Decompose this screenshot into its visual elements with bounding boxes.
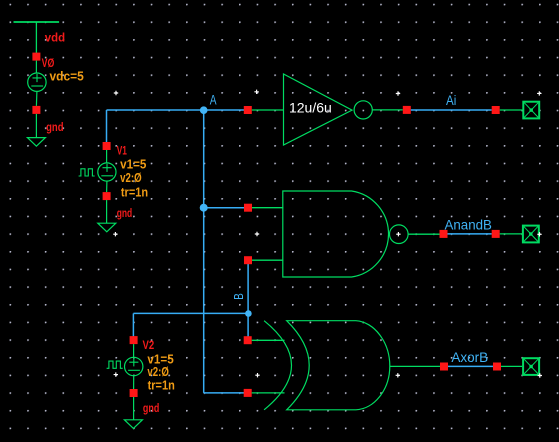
wire net A vertical trunk [203,110,205,393]
origin marker pin AnandB [537,232,541,236]
pin square V0 minus terminal [32,106,40,114]
pin square AnandB wire right [492,230,500,238]
voltage source V0 [28,61,46,106]
output pin Ai [523,102,539,119]
origin marker V2 [114,372,118,376]
svg-text:gnd: gnd [143,403,159,415]
svg-text:12u/6u: 12u/6u [289,100,332,116]
pin square Ai wire left [403,106,411,114]
pin square V1 minus terminal [103,192,111,200]
origin marker near V1 wire corner [114,91,118,95]
nand input stub A [252,207,283,209]
inverter (12u/6u) [284,74,373,145]
output pin AxorB [523,358,539,375]
xor output stub [390,365,440,367]
origin marker xor left [255,373,259,377]
svg-text:v2:Ø: v2:Ø [120,171,142,185]
wire branch to xor input A [204,392,248,394]
origin marker Ai wire [396,91,400,95]
pin square inverter input [244,106,252,114]
ground symbol V2 [124,397,142,428]
nand input stub B [252,259,283,261]
origin marker pin AxorB [538,373,542,377]
pin square AnandB wire left [440,230,448,238]
pin square xor input A [244,389,252,397]
svg-text:AxorB: AxorB [451,349,488,365]
pin square nand input B [244,256,252,264]
stub to output pin Ai [500,109,523,111]
pin square xor input B [244,336,252,344]
svg-text:B: B [231,293,246,300]
pin square V0 plus terminal [32,53,40,61]
wire net B horizontal [133,312,248,314]
ground symbol V0 [27,114,45,146]
svg-text:AnandB: AnandB [445,217,492,233]
pin square V2 minus terminal [130,389,138,397]
wire V1 top riser [106,110,108,143]
origin marker nand bubble [396,232,400,236]
junction on net A [200,204,208,212]
node A [200,106,208,114]
stub to output pin AxorB [501,365,522,367]
pin square AxorB wire left [440,363,448,371]
svg-text:tr=1n: tr=1n [148,378,175,392]
pin square V2 plus terminal [130,336,138,344]
pin square AxorB wire right [493,363,501,371]
svg-text:vdc=5: vdc=5 [50,69,84,83]
nand output stub [408,233,439,235]
svg-text:VØ: VØ [42,58,55,70]
inverter input stub [252,109,283,111]
svg-text:Ai: Ai [446,92,456,108]
inverter output stub [372,109,402,111]
pulse source V2 [107,344,143,389]
xor input stub A [252,392,285,394]
pulse source V1 [79,150,116,192]
wire V2 riser to net B [132,313,134,336]
wire branch to nand input A [204,207,248,209]
svg-text:V1: V1 [117,146,128,158]
svg-text:gnd: gnd [117,208,133,220]
ground symbol V1 [98,200,116,232]
origin marker pin Ai [537,91,541,95]
stub to output pin AnandB [500,233,522,235]
wire net AnandB [448,233,492,235]
node B [245,310,252,317]
origin marker xor output [396,373,400,377]
svg-text:v1=5: v1=5 [120,157,146,171]
origin marker nand left [255,232,259,236]
pin square Ai wire right [492,106,500,114]
xor input stub B [252,339,285,341]
power rail vdd [14,22,60,53]
svg-text:vdd: vdd [45,32,65,44]
svg-text:v2:Ø: v2:Ø [147,365,169,379]
xor gate AxorB [264,321,390,410]
wire net AxorB [448,365,493,367]
svg-text:gnd: gnd [46,122,63,134]
output pin AnandB [523,226,539,243]
svg-text:tr=1n: tr=1n [121,185,148,199]
wire nand input B to xor input B [247,260,249,340]
origin marker V1 [113,232,117,236]
svg-text:V2: V2 [143,340,155,352]
nand gate AnandB [283,191,408,277]
pin square nand input A [244,204,252,212]
wire net A horizontal [107,109,248,111]
svg-text:A: A [210,92,217,108]
wire net Ai [411,109,492,111]
origin marker inverter [254,90,258,94]
pin square V1 plus terminal [103,142,111,150]
